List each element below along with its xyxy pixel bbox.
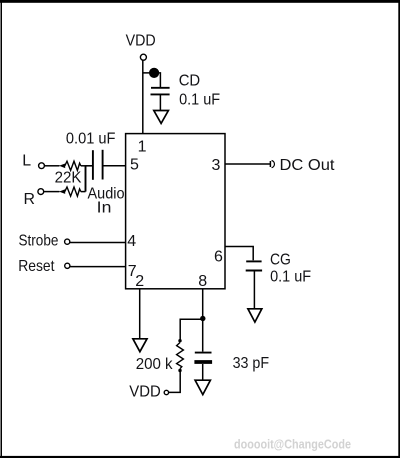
- svg-text:R: R: [24, 191, 35, 208]
- svg-text:DC Out: DC Out: [280, 157, 336, 174]
- svg-text:33 pF: 33 pF: [233, 355, 270, 372]
- svg-text:22K: 22K: [55, 169, 82, 186]
- svg-text:In: In: [97, 200, 112, 217]
- svg-text:0.1 uF: 0.1 uF: [179, 92, 220, 109]
- svg-text:CD: CD: [179, 73, 201, 90]
- svg-text:VDD: VDD: [126, 32, 156, 49]
- svg-text:200 k: 200 k: [136, 356, 173, 373]
- svg-text:Reset: Reset: [18, 258, 55, 275]
- svg-text:3: 3: [212, 157, 221, 174]
- svg-text:8: 8: [198, 273, 207, 290]
- svg-text:5: 5: [130, 157, 139, 174]
- svg-text:CG: CG: [270, 252, 291, 269]
- svg-text:Strobe: Strobe: [19, 233, 59, 250]
- svg-text:2: 2: [135, 273, 144, 290]
- svg-text:dooooit@ChangeCode: dooooit@ChangeCode: [234, 436, 351, 451]
- svg-text:1: 1: [138, 138, 147, 155]
- svg-text:L: L: [22, 153, 31, 170]
- svg-text:6: 6: [214, 249, 223, 266]
- svg-text:0.01 uF: 0.01 uF: [66, 131, 116, 148]
- svg-text:VDD: VDD: [129, 383, 161, 400]
- svg-text:0.1 uF: 0.1 uF: [270, 268, 311, 285]
- svg-text:4: 4: [127, 233, 136, 250]
